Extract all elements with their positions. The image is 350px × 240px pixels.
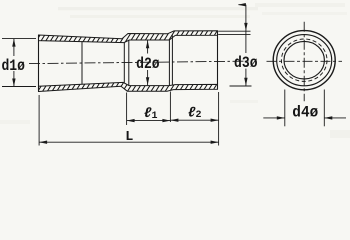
end view second circle <box>277 35 332 86</box>
end view horizontal centerline <box>267 60 343 62</box>
dimension L: line <box>39 141 219 143</box>
dimension d1: dimension line upper segment <box>13 39 15 56</box>
dimension d3: inner extension line <box>218 33 250 35</box>
dimension d4: right line <box>324 117 346 119</box>
dimension d1: arrow up <box>12 39 15 47</box>
svg-text:d1ø: d1ø <box>1 57 25 75</box>
internal step edge x=128.8 <box>128 40 130 86</box>
internal step edge x=172.4 <box>171 35 173 84</box>
top wall of sleeve (hatched section) <box>39 31 218 43</box>
dimension L: arrow right <box>211 141 219 144</box>
svg-text:1: 1 <box>152 111 158 122</box>
dimension d3: dimension line upper segment <box>245 5 247 53</box>
dimension d1: dimension line lower segment <box>13 71 15 87</box>
dimension d1: top extension line <box>2 38 36 40</box>
dimension d4: left extension line <box>284 90 286 127</box>
internal edge at x=82 <box>81 41 83 84</box>
dimension l2: arrow right <box>211 119 219 122</box>
internal step edge x=169.4 <box>168 40 170 86</box>
dimension d2: upper shaft <box>147 40 149 53</box>
dimension d1: bottom extension line <box>2 86 36 88</box>
dimension l2: arrow left <box>170 119 178 122</box>
dimension d4: arrow right-pointing <box>277 116 285 119</box>
svg-text:d4ø: d4ø <box>292 104 318 122</box>
svg-text:L: L <box>125 130 133 145</box>
scan ghost streaks <box>0 3 350 138</box>
dimension d2: arrow down <box>146 77 149 85</box>
dimension d3: dimension line lower segment <box>245 69 247 86</box>
dimension d4: left line <box>263 117 285 119</box>
dimension l1: arrow left <box>127 119 135 122</box>
right end face <box>217 31 219 90</box>
dimension d2: arrow up <box>146 40 149 48</box>
left end face <box>38 35 40 92</box>
dimension d2: lower shaft <box>147 70 149 85</box>
svg-text:d2ø: d2ø <box>136 55 160 73</box>
end view outer circle <box>273 31 335 90</box>
end view inner circle <box>284 41 324 79</box>
dimension L: left extension line <box>38 95 40 146</box>
internal step edge x=124.3 <box>123 43 125 83</box>
svg-text:d3ø: d3ø <box>234 54 258 72</box>
bottom wall of sleeve (hatched section) <box>39 82 218 91</box>
dimension d3: arrow at bottom extension <box>244 78 247 86</box>
dimension d3: outer extension line <box>218 30 250 32</box>
dimension l1: line <box>127 120 171 122</box>
dimension l1: left extension line <box>126 93 128 126</box>
dimension L: arrow left <box>39 141 47 144</box>
centerline side view <box>29 61 252 64</box>
dimension d3: arrow at top extension <box>244 23 247 31</box>
dimension l1: arrow right <box>162 119 170 122</box>
dimension d3: bottom extension line <box>230 85 252 87</box>
end view dashed circle <box>281 39 327 81</box>
end view vertical centerline <box>303 22 305 102</box>
dimension d1: arrow down <box>12 79 15 87</box>
dimension d3: hook arrow <box>238 3 246 6</box>
dimension d4: right extension line <box>323 90 325 127</box>
svg-text:2: 2 <box>196 110 202 121</box>
dimension d3: top hook <box>239 4 246 6</box>
dimension l2: line <box>170 119 218 121</box>
dimension L: right extension line <box>218 92 220 146</box>
dimension l1/l2 shared extension line <box>169 92 171 123</box>
dimension d4: arrow left-pointing <box>324 116 332 119</box>
